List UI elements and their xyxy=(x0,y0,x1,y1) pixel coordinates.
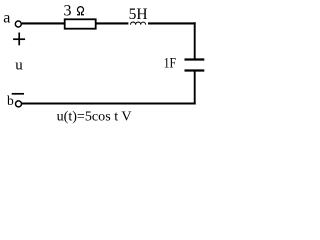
inductor coil xyxy=(131,22,146,25)
svg-text:5H: 5H xyxy=(129,6,148,23)
wire: right vertical down to capacitor xyxy=(194,22,196,59)
capacitor C 1F top plate xyxy=(185,58,205,60)
svg-text:a: a xyxy=(3,10,10,27)
wire: inductor to top-right corner xyxy=(148,22,196,24)
wire: a to resistor xyxy=(22,22,64,24)
resistor unit ohm xyxy=(77,7,84,15)
terminal b circle xyxy=(16,101,22,107)
plus polarity mark xyxy=(13,33,25,46)
terminal a circle xyxy=(15,21,21,27)
svg-text:3: 3 xyxy=(64,3,72,20)
wire: resistor to inductor xyxy=(96,22,128,24)
svg-text:u: u xyxy=(15,58,23,74)
minus polarity mark xyxy=(12,93,24,95)
resistor R 3ohm box xyxy=(65,19,96,28)
capacitor C 1F bottom plate xyxy=(185,69,205,71)
svg-text:b: b xyxy=(7,93,14,108)
wire: capacitor down to bottom-right corner xyxy=(194,71,196,105)
svg-text:u(t)=5cos t V: u(t)=5cos t V xyxy=(57,109,132,124)
svg-text:1F: 1F xyxy=(164,55,177,71)
wire: bottom from b to right corner xyxy=(22,103,196,105)
